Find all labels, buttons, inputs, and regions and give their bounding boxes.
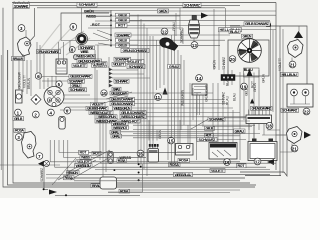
label WEISS-SCHWARZ stack row3l — [95, 119, 118, 123]
label BLAU top-right — [229, 30, 240, 34]
label WEISS-GRUN 8-stack — [75, 54, 96, 59]
label HELL-BLAU right — [281, 72, 299, 76]
handlebar switch cluster 5 — [44, 87, 64, 107]
svg-text:ROT: ROT — [251, 81, 255, 88]
ring connector 8 — [73, 54, 78, 59]
svg-text:SCHWARZ: SCHWARZ — [40, 168, 44, 182]
label WEISS-BLAU bottom-right — [174, 172, 193, 176]
svg-text:WEISS: WEISS — [81, 156, 91, 160]
label SCHWARZ top-center — [77, 3, 97, 8]
svg-text:VIOLETT: VIOLETT — [113, 63, 125, 67]
label VIOLETT 8-stack — [72, 64, 87, 68]
label column GELB 4 — [116, 43, 130, 47]
circled 13 — [191, 42, 198, 49]
svg-text:ROSA: ROSA — [118, 159, 126, 163]
circled 15 — [168, 137, 175, 144]
label ROSA mid-bottom — [103, 179, 113, 183]
wire cdi feeds — [149, 120, 157, 141]
label VIOLETT bottom bus — [76, 160, 91, 164]
svg-text:SCHWARZ: SCHWARZ — [115, 58, 130, 62]
svg-text:GRÜN: GRÜN — [159, 8, 168, 13]
relay 15 — [176, 144, 194, 156]
circled 6 lower — [64, 107, 71, 114]
label GELB-SCHWARZ mid-stack2 — [110, 102, 135, 106]
fuse holder mid-bottom — [108, 152, 113, 164]
label VIOLETT mid-stack — [112, 62, 126, 66]
svg-text:SCHWARZ: SCHWARZ — [282, 109, 298, 113]
svg-text:GRÜN: GRÜN — [243, 34, 252, 39]
label SCHWARZ mid-right2 — [197, 137, 217, 141]
svg-text:20: 20 — [230, 57, 235, 62]
junction dots bottom bundle — [43, 163, 142, 196]
label SCHWARZ 6b — [69, 88, 87, 92]
wire left inner border 2 — [13, 8, 250, 183]
lamp 1 left — [16, 90, 23, 103]
svg-text:GRÜN: GRÜN — [262, 73, 266, 83]
svg-text:12: 12 — [162, 29, 167, 34]
label GRUN-SCHWARZ 8-stack — [77, 58, 102, 63]
circled 6 upper — [35, 73, 41, 79]
ignition coil 9 — [76, 8, 88, 45]
label GELB-SCHWARZ mid-stack1 — [110, 97, 135, 101]
wire left inner border 3 — [13, 7, 29, 9]
arrow up right-mid — [247, 69, 253, 76]
flywheel magneto 20 — [228, 39, 269, 76]
connector pod bottom-left — [100, 177, 117, 189]
wire lamp21b feed — [276, 135, 292, 152]
wire bottom extra lines — [55, 132, 240, 196]
svg-text:WEISS-BLAU: WEISS-BLAU — [76, 164, 92, 168]
svg-text:GELB-SCHWARZ: GELB-SCHWARZ — [70, 75, 92, 79]
svg-text:GELB: GELB — [206, 127, 214, 131]
svg-text:14: 14 — [196, 76, 201, 81]
circled 18 — [266, 122, 273, 129]
faint pencil scratches — [38, 24, 90, 55]
svg-text:SCHWARZ: SCHWARZ — [199, 138, 217, 142]
svg-text:HELL-BLAU: HELL-BLAU — [282, 73, 298, 77]
label column SCHWARZ — [115, 33, 131, 37]
svg-text:WEISS: WEISS — [81, 50, 90, 54]
svg-text:SCHWARZ: SCHWARZ — [222, 57, 226, 70]
svg-text:22: 22 — [304, 109, 309, 114]
label ROT mid-bottom-left — [92, 151, 101, 155]
circled 3 top-left — [18, 25, 25, 32]
circled 14 — [196, 75, 203, 82]
wire bottom extra buses — [0, 163, 276, 192]
label BRAUN bottom-mid — [91, 184, 104, 188]
wire left of stack verticals — [95, 45, 109, 119]
circled 8 — [69, 47, 75, 53]
wire flywheel leads — [240, 70, 259, 160]
svg-text:GRÜN-SCHWARZ: GRÜN-SCHWARZ — [252, 106, 272, 111]
circled 4 — [48, 109, 55, 116]
svg-text:WEISS-BLAU: WEISS-BLAU — [175, 173, 192, 177]
wire feeds to label column — [84, 12, 111, 45]
svg-text:ROT: ROT — [80, 151, 88, 155]
label column GELB 1 — [116, 13, 130, 17]
svg-text:GELB: GELB — [14, 117, 23, 121]
junction box 14 — [192, 84, 207, 95]
arrow right lamp21b — [304, 132, 311, 139]
wire left outer verticals — [1, 50, 8, 170]
starter symbol arrow-circle — [38, 161, 50, 167]
label SCHWARZ under 22 — [281, 108, 299, 112]
svg-text:ROSA: ROSA — [120, 189, 129, 193]
svg-text:11: 11 — [155, 95, 160, 100]
circled 16 left — [137, 150, 144, 157]
svg-text:GELB: GELB — [245, 87, 249, 96]
horn 3 bottom-left — [22, 132, 37, 159]
wire stack right horizontals — [128, 93, 260, 138]
regulator 16 right — [209, 139, 237, 159]
label BRAUN bottom bus — [67, 171, 80, 175]
wire horn drop — [30, 8, 35, 41]
ignition switch 18 — [246, 110, 272, 124]
svg-text:ROT: ROT — [92, 23, 101, 27]
label SCHWARZ mid-stack — [114, 57, 131, 61]
label VIOLETT 8-stack right — [92, 63, 107, 67]
wire right verticals extra — [178, 50, 197, 147]
svg-text:21: 21 — [292, 146, 297, 151]
label WEISS-ROT stack row4 — [112, 122, 129, 126]
wire left drops — [19, 54, 31, 96]
label GELB-SCHWARZ 6 — [69, 74, 92, 78]
label GRAU pair upper — [110, 130, 121, 134]
svg-text:ROSA: ROSA — [179, 159, 189, 163]
svg-text:ROSA: ROSA — [15, 129, 24, 133]
svg-text:ROSA: ROSA — [170, 163, 180, 167]
wire plug feeds — [176, 8, 183, 44]
svg-text:GRAU: GRAU — [112, 134, 121, 138]
label WEISS-GRUN cluster-right — [89, 110, 107, 115]
circled 9 — [70, 23, 77, 30]
svg-text:SCHWARZ: SCHWARZ — [184, 3, 201, 7]
turn lamp 21 top — [288, 26, 304, 64]
wire diagonal joins bottom-left — [52, 150, 112, 185]
switch cluster pins — [48, 76, 60, 87]
label GRUN-SCHWARZ above switch — [251, 106, 273, 111]
connector diamond 2 — [31, 95, 41, 105]
svg-text:GELB-SCHW: GELB-SCHW — [111, 91, 128, 95]
svg-text:VIOLETT: VIOLETT — [23, 75, 27, 88]
connector arrow bottom — [49, 190, 57, 195]
label column GELB 2 — [116, 18, 130, 22]
wire diagonals near stack — [104, 92, 132, 103]
svg-text:SCHWARZ: SCHWARZ — [129, 65, 145, 69]
wire relay feeds — [180, 120, 188, 144]
svg-text:16: 16 — [224, 160, 229, 165]
coil squiggle top-left — [13, 2, 30, 4]
wire step bottom-mid — [108, 164, 143, 192]
label GRAU boxed mid — [168, 64, 180, 69]
wires from column to right — [127, 15, 276, 45]
circled 2 — [32, 111, 39, 118]
wire right inner vertical — [279, 26, 281, 176]
svg-text:VIOLETT: VIOLETT — [278, 58, 282, 71]
lamp unit 12 — [160, 38, 178, 51]
label GRUN upper-mid — [158, 8, 169, 13]
svg-text:BLAU: BLAU — [233, 92, 237, 101]
label WEISS-GRUN mid-stack — [113, 105, 132, 110]
svg-text:ROT: ROT — [118, 24, 126, 28]
svg-text:VIOLETT: VIOLETT — [100, 111, 113, 115]
wire left cluster verticals — [37, 41, 70, 90]
label VIOLETT bottom-right — [210, 169, 225, 173]
connector block dark bar — [221, 70, 235, 85]
svg-text:WEISS-ROT: WEISS-ROT — [113, 126, 128, 130]
svg-text:GELB: GELB — [118, 14, 127, 18]
label SCHWARZ 8-stack — [79, 46, 95, 50]
label ROT bottom bus — [79, 150, 89, 154]
label VIOLETT stack row1l — [99, 111, 113, 115]
wire starter drop with arrow — [44, 167, 48, 189]
wire left border — [3, 8, 255, 187]
wire top bus 1 — [12, 2, 276, 4]
label WEISS-ROT stack row3 — [120, 119, 140, 123]
label GELB-SCHWARZ cluster-right — [86, 106, 108, 110]
label GRAU 6 — [71, 84, 82, 88]
circled 17 — [254, 158, 261, 165]
svg-text:GRAU: GRAU — [235, 129, 245, 133]
label GRUN-SCHWARZ under horn — [37, 49, 61, 54]
svg-text:15: 15 — [168, 138, 173, 143]
wire right top feed — [230, 26, 307, 84]
label WEISS-SCHWARZ stack row1 — [120, 111, 146, 115]
wire left inner border 1 — [8, 50, 257, 185]
label WEISS-GRUN stack row2l — [97, 114, 117, 119]
svg-text:BRAUN: BRAUN — [13, 57, 24, 61]
wire 6 to labels — [42, 77, 69, 82]
coil assembly box — [61, 13, 109, 41]
svg-text:GELB: GELB — [118, 39, 127, 43]
wire battery feeds — [249, 124, 287, 143]
label GELB SCHWARZ top-right — [244, 22, 270, 26]
label SCHWARZ top-left — [13, 4, 30, 9]
junction column — [110, 10, 112, 47]
circled 7 — [36, 153, 43, 160]
arrow plug top — [201, 13, 208, 19]
label SCHWARZ mid-stack2 — [114, 79, 129, 83]
wire regulator feeds — [213, 83, 233, 139]
label GRAU mid-stack — [112, 87, 121, 91]
svg-text:18: 18 — [267, 124, 272, 129]
label ROSA right of 15 — [178, 158, 190, 162]
wire bottom bus lines 2 — [46, 140, 80, 178]
flasher relay small — [56, 59, 67, 74]
wire bottom bus lines — [74, 152, 270, 178]
svg-text:GRAU: GRAU — [172, 21, 176, 31]
circled 21 bottom — [291, 145, 298, 152]
svg-text:SCHWARZ: SCHWARZ — [222, 92, 226, 105]
label SCHWARZ left of 18 — [208, 117, 225, 121]
label ROT bottom-right — [237, 164, 247, 168]
label GRAU pair lower — [111, 134, 122, 138]
label WEISS-BLAU bottom bus — [75, 164, 93, 168]
svg-text:VIOLETT: VIOLETT — [96, 62, 107, 66]
circled 11 — [155, 94, 162, 101]
arrow left battery — [267, 159, 274, 165]
connector chevron column — [109, 68, 112, 87]
svg-text:GELB: GELB — [118, 19, 127, 23]
circled 5 — [56, 81, 62, 87]
svg-text:BLAU: BLAU — [226, 76, 230, 86]
svg-text:GRÜN-SCHWARZ: GRÜN-SCHWARZ — [123, 48, 149, 53]
battery 17 — [248, 139, 277, 161]
label ROSA mid-bus — [117, 159, 127, 163]
svg-text:SCHWARZ: SCHWARZ — [115, 80, 129, 84]
wire mid horizontals — [95, 45, 150, 78]
svg-text:WEISS-GRÜN: WEISS-GRÜN — [114, 105, 131, 110]
wire mid bundle verticals — [138, 15, 175, 177]
wire diagonal to SCHWARZ label — [190, 95, 208, 160]
CDI unit 16 — [148, 144, 159, 162]
label BRAUN left — [12, 57, 25, 61]
circled 19 — [241, 83, 248, 90]
wire top bus 3 — [37, 7, 225, 9]
arrow up mid — [163, 88, 168, 95]
svg-text:13: 13 — [192, 43, 197, 48]
spark plug 13 — [189, 16, 200, 49]
wire right stack to switch — [213, 118, 252, 140]
svg-text:VIOLETT: VIOLETT — [73, 64, 87, 68]
circled 3 bottom-left — [15, 134, 22, 141]
circled 1 — [15, 109, 22, 116]
circled 21 top — [289, 61, 296, 68]
label column GELB 3 — [116, 38, 130, 42]
label GRAU mid-right — [234, 129, 246, 133]
label SCHWARZ top-right — [183, 3, 201, 8]
label WEISS-SCHWARZ stack row2 — [120, 115, 146, 119]
svg-text:SCHWARZ: SCHWARZ — [79, 3, 97, 7]
svg-text:GELB SCHWARZ: GELB SCHWARZ — [245, 22, 270, 26]
svg-text:ROSA: ROSA — [65, 176, 74, 180]
connector blob on right feed — [266, 23, 271, 26]
wire right drop group — [271, 26, 284, 173]
turn-signal switch 3 top-left — [18, 30, 32, 60]
label GELB under 1 — [13, 117, 24, 121]
circled 20 — [229, 56, 236, 63]
label VIOLETT cluster-right — [91, 102, 106, 106]
wire right top feed 2 — [228, 29, 276, 31]
svg-text:GELB: GELB — [118, 44, 127, 48]
label WEISS-ROT stack row5 — [112, 126, 129, 130]
label column ROT — [116, 23, 128, 27]
svg-text:10: 10 — [102, 91, 107, 96]
wire upper extra horizontals — [84, 11, 276, 29]
circled 16 right — [224, 159, 231, 166]
circled 22 — [303, 108, 310, 115]
label ROSA bottom-center — [119, 189, 130, 193]
wire verticals left of flywheel — [214, 8, 226, 70]
svg-text:ROT: ROT — [238, 164, 246, 168]
wire bottom-right inner — [245, 175, 281, 177]
label VIOLETT mid-stack-left — [95, 62, 107, 66]
label ROSA near 15 — [169, 163, 181, 167]
label ROSA bottom bus — [64, 176, 75, 180]
svg-text:GRÜN-SCHW: GRÜN-SCHW — [18, 71, 22, 89]
tail lamp box 22 — [287, 84, 313, 107]
svg-text:SCHWARZ: SCHWARZ — [70, 88, 86, 92]
svg-text:GRÜN: GRÜN — [213, 59, 217, 69]
label WEISS bottom bus — [80, 155, 91, 159]
fuse 5a cylinder — [59, 117, 65, 130]
svg-text:21: 21 — [290, 62, 295, 67]
svg-text:WEISS-GRÜN: WEISS-GRÜN — [76, 54, 95, 59]
arrow up lamp21 — [294, 31, 303, 38]
label GRUN-SCHWARZ right of column — [121, 48, 149, 53]
svg-text:SCHWARZ: SCHWARZ — [116, 33, 130, 37]
circled 10 — [101, 90, 107, 96]
wire right vertical main — [275, 3, 277, 171]
wire bottom-right border — [240, 110, 287, 176]
svg-text:BRAUN: BRAUN — [27, 77, 31, 89]
wire cluster to stack horizontals — [60, 95, 110, 110]
svg-text:17: 17 — [255, 159, 260, 164]
label SCHWARZ mid2 — [127, 64, 145, 68]
arrow up small right-mid — [250, 99, 254, 104]
svg-text:SCHWARZ: SCHWARZ — [69, 80, 84, 84]
wire verticals bottom-mid — [100, 110, 106, 177]
label VIOLETT mid — [125, 59, 144, 63]
label GELB-SCHWARZ mid-stack0 — [110, 91, 128, 95]
label SCHWARZ 6 — [68, 79, 85, 83]
label ROSA left cluster — [14, 128, 25, 132]
label GELB mid-right — [205, 126, 215, 130]
arrow box under flywheel — [244, 68, 260, 77]
wire top bus 2 — [30, 4, 241, 6]
label ROT mid-right — [205, 133, 214, 137]
circled 12 — [161, 28, 168, 35]
svg-text:BLAU: BLAU — [230, 30, 239, 34]
label GRUN top-right — [242, 34, 253, 39]
turn lamp 21 bottom — [287, 127, 303, 144]
label HELL-BLAU top-right — [219, 28, 242, 32]
